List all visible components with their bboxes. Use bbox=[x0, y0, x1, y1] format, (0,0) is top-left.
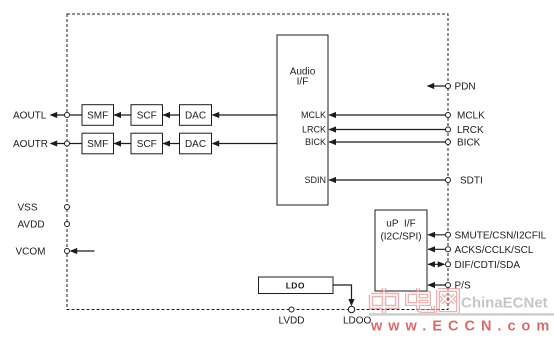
block DAC L-channel bbox=[180, 105, 212, 126]
pin VCOM bbox=[16, 247, 70, 258]
chip boundary dashed border bbox=[67, 14, 448, 310]
block Audio I/F U1 bbox=[277, 35, 328, 205]
wire SMF R to AOUTR pin bbox=[50, 140, 82, 146]
svg-text:AOUTL: AOUTL bbox=[13, 111, 47, 122]
block LDO regulator bbox=[259, 277, 334, 294]
pin BICK bbox=[446, 138, 481, 149]
wire SCF R to SMF R bbox=[114, 140, 132, 146]
pin SDTI bbox=[446, 176, 483, 187]
block SCF L-channel bbox=[131, 105, 163, 126]
svg-text:SCF: SCF bbox=[137, 110, 157, 121]
watermark chinese character 中 bbox=[371, 288, 397, 315]
svg-text:ACKS/CCLK/SCL: ACKS/CCLK/SCL bbox=[455, 245, 534, 256]
wire DAC L to SCF L bbox=[163, 112, 180, 118]
svg-text:LRCK: LRCK bbox=[457, 125, 484, 136]
pin P/S bbox=[446, 281, 471, 292]
wire SDTI pin to Audio I/F SDIN bbox=[329, 177, 446, 183]
svg-text:SMF: SMF bbox=[87, 139, 108, 150]
svg-text:SMUTE/CSN/I2CFIL: SMUTE/CSN/I2CFIL bbox=[455, 230, 547, 241]
pin AVDD bbox=[18, 220, 70, 231]
svg-text:BICK: BICK bbox=[457, 138, 481, 149]
pin SMUTE/CSN/I2CFIL bbox=[446, 230, 547, 241]
svg-text:AVDD: AVDD bbox=[18, 220, 45, 231]
wire P/S pin to uP I/F bbox=[428, 282, 446, 288]
svg-text:I/F: I/F bbox=[297, 77, 309, 88]
svg-text:LDOO: LDOO bbox=[343, 316, 372, 327]
wire BICK pin to Audio I/F bbox=[329, 139, 446, 145]
svg-text:LRCK: LRCK bbox=[302, 124, 326, 134]
svg-text:MCLK: MCLK bbox=[301, 110, 326, 120]
wire DAC R to SCF R bbox=[163, 140, 180, 146]
wire LDO output to LDOO pin bbox=[333, 285, 355, 306]
svg-text:MCLK: MCLK bbox=[457, 111, 485, 122]
pin MCLK bbox=[446, 111, 486, 122]
block SMF R-channel bbox=[82, 133, 114, 154]
svg-text:SDTI: SDTI bbox=[460, 176, 483, 187]
wire MCLK pin to Audio I/F bbox=[329, 112, 446, 118]
pin LDOO bbox=[343, 306, 372, 326]
block DAC R-channel bbox=[180, 133, 212, 154]
block uP I/F (I2C/SPI) U2 bbox=[375, 210, 427, 291]
svg-text:ChinaECNet: ChinaECNet bbox=[461, 295, 548, 312]
pin AOUTL bbox=[13, 111, 70, 122]
wire Audio I/F to DAC L bbox=[212, 112, 277, 118]
pin DIF/CDTI/SDA bbox=[446, 260, 521, 271]
pin PDN bbox=[446, 82, 476, 93]
svg-text:LVDD: LVDD bbox=[279, 316, 305, 327]
pin LVDD bbox=[279, 307, 305, 327]
svg-text:SDIN: SDIN bbox=[304, 175, 326, 185]
watermark chinese character 电 bbox=[407, 288, 433, 311]
svg-text:PDN: PDN bbox=[455, 82, 476, 93]
svg-text:SCF: SCF bbox=[137, 139, 157, 150]
svg-text:DAC: DAC bbox=[185, 110, 206, 121]
svg-text:LDO: LDO bbox=[286, 280, 305, 290]
wire VCOM input arrow bbox=[70, 248, 95, 254]
svg-text:VCOM: VCOM bbox=[16, 247, 46, 258]
svg-text:DIF/CDTI/SDA: DIF/CDTI/SDA bbox=[455, 260, 521, 271]
svg-text:www.ECCN.com: www.ECCN.com bbox=[370, 319, 554, 335]
svg-text:AOUTR: AOUTR bbox=[13, 139, 48, 150]
wire PDN input arrow bbox=[427, 83, 446, 89]
pin AOUTR bbox=[13, 139, 70, 150]
svg-text:VSS: VSS bbox=[18, 203, 38, 214]
block SMF L-channel bbox=[82, 105, 114, 126]
svg-text:(I2C/SPI): (I2C/SPI) bbox=[380, 232, 421, 243]
svg-text:DAC: DAC bbox=[185, 139, 206, 150]
block SCF R-channel bbox=[131, 133, 163, 154]
svg-text:uP I/F: uP I/F bbox=[386, 218, 415, 229]
wire SCF L to SMF L bbox=[114, 112, 132, 118]
wire DIF/CDTI/SDA bidirectional to uP I/F bbox=[428, 261, 446, 267]
pin LRCK bbox=[446, 125, 485, 136]
wire LRCK pin to Audio I/F bbox=[329, 126, 446, 132]
svg-text:BICK: BICK bbox=[305, 137, 326, 147]
watermark underline bar bbox=[369, 313, 554, 315]
wire SMF L to AOUTL pin bbox=[50, 112, 82, 118]
wire ACKS/CCLK/SCL pin to uP I/F bbox=[428, 246, 446, 252]
watermark chinese character 网 bbox=[438, 290, 458, 313]
pin ACKS/CCLK/SCL bbox=[446, 245, 534, 256]
wire Audio I/F to DAC R bbox=[212, 140, 277, 146]
pin VSS bbox=[18, 203, 70, 214]
svg-text:SMF: SMF bbox=[87, 110, 108, 121]
wire SMUTE/CSN/I2CFIL pin to uP I/F bbox=[428, 232, 446, 238]
